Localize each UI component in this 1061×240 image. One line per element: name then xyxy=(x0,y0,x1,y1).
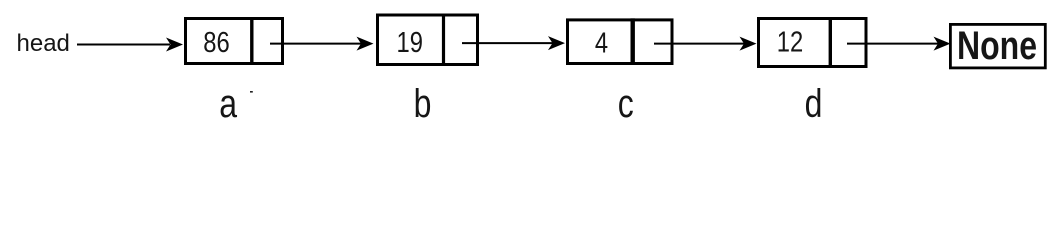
label a xyxy=(219,81,238,126)
arrow node d to None xyxy=(847,37,951,51)
svg-text:12: 12 xyxy=(777,25,803,58)
value 19 xyxy=(396,26,422,59)
node c box xyxy=(568,18,673,65)
svg-text:head: head xyxy=(17,30,70,57)
label c xyxy=(618,81,634,126)
svg-text:None: None xyxy=(957,23,1037,68)
stray tick mark xyxy=(250,91,253,93)
svg-text:d: d xyxy=(805,81,823,125)
svg-text:86: 86 xyxy=(203,26,229,59)
svg-text:b: b xyxy=(414,81,432,125)
node b box xyxy=(378,14,478,67)
arrow node c to node d xyxy=(654,37,757,51)
None text xyxy=(957,23,1037,68)
arrow node b to node c xyxy=(462,36,565,50)
svg-text:c: c xyxy=(618,81,634,125)
arrow node a to node b xyxy=(270,37,374,51)
svg-text:4: 4 xyxy=(595,26,608,59)
label b xyxy=(414,81,432,126)
label head xyxy=(17,30,70,57)
node d box xyxy=(759,17,867,68)
svg-text:a: a xyxy=(219,81,238,125)
svg-text:19: 19 xyxy=(396,26,422,59)
value 4 xyxy=(595,26,608,59)
None box xyxy=(950,24,1045,68)
value 86 xyxy=(203,26,229,59)
node a box xyxy=(186,17,283,65)
value 12 xyxy=(777,25,803,58)
label d xyxy=(805,81,823,126)
arrow head to node a xyxy=(77,38,183,52)
